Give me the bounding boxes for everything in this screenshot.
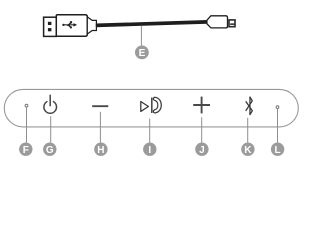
leader line F [26, 107, 28, 142]
leader line K [247, 118, 249, 143]
label F [19, 143, 32, 156]
micro-USB body [207, 16, 228, 28]
USB-A contact hole 2 [48, 28, 52, 31]
svg-text:H: H [97, 145, 104, 156]
microphone dot L [276, 106, 279, 109]
label G [43, 143, 56, 156]
pause bar [151, 98, 153, 114]
svg-text:I: I [148, 145, 151, 156]
play/pause/call button I [141, 97, 162, 113]
label H [94, 143, 107, 156]
volume-up button J (plus) [193, 97, 210, 114]
label I [143, 143, 156, 156]
leader line H [99, 112, 101, 143]
power button icon G [44, 95, 57, 113]
microphone dot F [25, 104, 28, 107]
cable E: USB-A metal plug [44, 17, 57, 36]
play triangle [141, 102, 149, 112]
USB trident symbol [62, 21, 77, 28]
leader line I [149, 119, 151, 143]
volume-down button H (minus) [92, 105, 108, 107]
micro-USB plug [229, 20, 235, 27]
USB-A strain relief neck [87, 17, 96, 34]
svg-text:J: J [199, 145, 205, 156]
label J [195, 143, 208, 156]
label E [135, 46, 149, 60]
svg-text:F: F [23, 145, 29, 156]
svg-text:G: G [46, 145, 54, 156]
leader line J [201, 117, 203, 142]
svg-text:L: L [275, 145, 281, 156]
micro-USB plug inner bar [230, 23, 235, 25]
handset [153, 97, 161, 113]
cable wire [96, 22, 208, 26]
label E leader line [140, 26, 142, 46]
USB-A contact hole 1 [48, 22, 52, 25]
bluetooth button K [246, 97, 253, 115]
label L [271, 143, 284, 156]
svg-text:K: K [244, 145, 252, 156]
leader line L [277, 109, 279, 143]
svg-text:E: E [139, 48, 146, 59]
label K [241, 143, 254, 156]
speaker panel outline [4, 89, 298, 127]
leader line G [50, 116, 52, 142]
USB-A plastic body [56, 15, 87, 37]
